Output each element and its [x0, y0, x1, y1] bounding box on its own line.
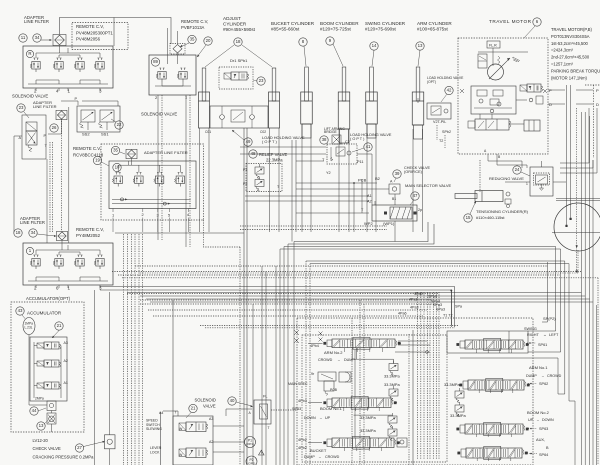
leader 23b	[253, 80, 257, 81]
svg-text:13: 13	[39, 423, 44, 428]
svg-text:23: 23	[259, 78, 264, 83]
tension small parts	[506, 192, 510, 196]
bucket cylinder	[305, 67, 309, 101]
solenoid valve SS2	[81, 110, 95, 122]
rcv pvbf box	[149, 55, 196, 95]
balloon 22	[115, 121, 123, 129]
svg-text:CROWD: CROWD	[318, 358, 333, 362]
rcv2 pilot valve 4	[178, 172, 180, 174]
solenoid valve SV1	[26, 122, 37, 131]
rcv2 dashed box	[101, 144, 204, 220]
svg-text:1st-53,2cm³×45,500: 1st-53,2cm³×45,500	[551, 41, 589, 46]
svg-text:44: 44	[32, 408, 37, 413]
svg-text:=1257,1cm³: =1257,1cm³	[551, 62, 574, 67]
svg-text:PV48M2056: PV48M2056	[76, 37, 101, 42]
FL filter box	[254, 400, 271, 424]
tm inner stubs	[491, 114, 493, 119]
rcv2 port wires down	[112, 218, 114, 233]
svg-text:33.3MPa: 33.3MPa	[384, 382, 400, 387]
spool BOOM No.1	[332, 398, 391, 408]
adjust sol valve dashed box	[219, 67, 253, 89]
remote control valve R block	[23, 46, 113, 88]
line filter F5	[170, 44, 185, 55]
svg-text:A2: A2	[209, 440, 213, 444]
leader 21	[52, 331, 59, 339]
svg-text:POB: POB	[330, 388, 338, 392]
svg-text:23: 23	[19, 105, 24, 110]
svg-text:(OP1): (OP1)	[246, 442, 254, 446]
leader 14	[372, 50, 374, 66]
svg-text:LINE FILTER: LINE FILTER	[33, 104, 57, 109]
relief 33.3 e	[455, 391, 464, 398]
svg-text:24: 24	[515, 167, 520, 172]
leader from balloons to filter	[41, 39, 51, 41]
svg-text:13: 13	[418, 43, 423, 48]
warning triangle	[259, 450, 265, 455]
svg-text:PY48M2052: PY48M2052	[76, 233, 101, 238]
svg-text:4Pa2: 4Pa2	[409, 298, 418, 302]
svg-text:C01: C01	[205, 130, 211, 134]
spool BOOM No.2	[465, 424, 523, 434]
svg-text:T: T	[268, 426, 270, 430]
svg-text:C02: C02	[260, 130, 266, 134]
svg-text:LINE FILTER: LINE FILTER	[20, 220, 45, 225]
svg-text:42: 42	[447, 88, 452, 93]
relief 33.3 f	[455, 405, 464, 412]
svg-text:ARM CYLINDER: ARM CYLINDER	[417, 21, 452, 26]
svg-text:22.3MPa: 22.3MPa	[266, 158, 283, 163]
svg-text:BRIDGE: BRIDGE	[324, 130, 338, 134]
svg-text:SP63: SP63	[539, 427, 548, 431]
svg-text:33.3MPa: 33.3MPa	[360, 428, 376, 433]
svg-text:15: 15	[466, 215, 471, 220]
svg-text:DUMP: DUMP	[344, 358, 355, 362]
svg-text:(OPT): (OPT)	[427, 80, 436, 84]
svg-text:T2: T2	[439, 139, 443, 143]
tm motor circle	[488, 64, 504, 80]
accu sol valve A1	[44, 382, 59, 389]
svg-text:SP61: SP61	[538, 343, 547, 347]
svg-text:R: R	[28, 51, 31, 56]
svg-text:#110×460-115st: #110×460-115st	[476, 215, 505, 220]
svg-text:#120×75-725st: #120×75-725st	[320, 27, 352, 32]
svg-text:4Pb4: 4Pb4	[310, 344, 319, 348]
svg-text:↔: ↔	[319, 416, 323, 420]
lh check 2	[250, 115, 255, 120]
left long verticals	[93, 290, 95, 465]
svg-text:Y2: Y2	[326, 171, 331, 175]
solenoid valve SS1	[100, 110, 114, 122]
main valve inner dashed box	[302, 335, 447, 462]
svg-text:↔: ↔	[541, 374, 545, 378]
relief 33.3 d	[388, 429, 397, 436]
balloon 18c	[234, 38, 242, 46]
wire filter to top rail	[60, 18, 172, 45]
bottom sol valve 1	[186, 422, 206, 432]
svg-text:(ORIFICE): (ORIFICE)	[404, 170, 423, 174]
svg-text:REMOTE C.V,: REMOTE C.V,	[76, 227, 104, 232]
leader 44	[38, 408, 46, 411]
line filter F4	[57, 231, 68, 240]
lh check 1	[220, 115, 225, 120]
svg-text:34: 34	[31, 230, 36, 235]
balloon 23	[17, 104, 25, 112]
balloon 35b	[111, 146, 119, 154]
svg-text:27: 27	[77, 445, 82, 450]
balloon 23b	[257, 77, 265, 85]
svg-text:40: 40	[230, 398, 235, 403]
svg-text:PARKING BREAK TORQUE: PARKING BREAK TORQUE	[551, 68, 600, 73]
svg-text:35: 35	[190, 37, 195, 42]
vert valve	[324, 381, 334, 391]
svg-text:AUX,: AUX,	[536, 437, 545, 442]
spool SWING	[465, 340, 523, 349]
svg-text:TRAVEL MOTOR: TRAVEL MOTOR	[489, 19, 532, 24]
leader 40	[236, 402, 252, 406]
leader 41	[352, 148, 364, 152]
svg-text:DUMP: DUMP	[304, 455, 315, 459]
wire filter drop into block	[59, 46, 61, 53]
relief 33.3 c	[388, 416, 397, 423]
accu wires	[33, 342, 35, 398]
svg-text:↔: ↔	[543, 333, 547, 337]
svg-text:BOOM CYLINDER: BOOM CYLINDER	[320, 21, 359, 26]
svg-text:RIGHT: RIGHT	[527, 333, 539, 337]
svg-text:ARM No.1: ARM No.1	[529, 365, 548, 370]
svg-text:#90×455×590st: #90×455×590st	[223, 27, 256, 32]
svg-text:LEFT: LEFT	[549, 333, 559, 337]
X marks arm2	[294, 330, 299, 335]
boom lh internals	[336, 147, 345, 156]
balloon 40	[228, 397, 236, 405]
svg-text:P2: P2	[243, 182, 247, 186]
spool ARM No.1	[468, 380, 524, 390]
bottom wires	[213, 425, 244, 427]
svg-text:SPa3: SPa3	[436, 308, 445, 312]
svg-text:SWING CYLINDER: SWING CYLINDER	[365, 21, 406, 26]
svg-text:38: 38	[322, 137, 327, 142]
svg-text:REMOTE C.V,: REMOTE C.V,	[181, 19, 208, 24]
svg-text:20: 20	[206, 38, 211, 43]
balloon 8	[299, 38, 307, 46]
tm inner box	[471, 86, 516, 114]
line filter F2	[56, 110, 67, 119]
leader 49	[232, 130, 244, 140]
svg-text:CHECK VALVE: CHECK VALVE	[33, 446, 62, 451]
svg-text:TRAVEL MOTOR(P,B): TRAVEL MOTOR(P,B)	[551, 27, 592, 32]
comp valve	[339, 372, 351, 382]
svg-text:33.3MPa: 33.3MPa	[384, 374, 400, 379]
balloon 1	[26, 247, 33, 254]
svg-text:49: 49	[246, 139, 251, 144]
svg-text:A3: A3	[209, 417, 213, 421]
spool ARM No.2	[332, 339, 395, 348]
leader 18c legs	[205, 45, 234, 67]
balloon 26	[50, 124, 58, 132]
svg-text:P: P	[549, 88, 552, 93]
balloon 39	[393, 170, 401, 178]
relief 33.3 a	[389, 364, 398, 371]
reducing valve	[534, 173, 550, 185]
load holding assembly box	[210, 106, 268, 128]
svg-text:PCB: PCB	[358, 178, 367, 183]
spool interconnects colA	[351, 348, 353, 359]
balloon 20	[204, 37, 212, 45]
rcv3 block	[23, 243, 113, 285]
rcv2 inner box	[109, 161, 196, 209]
balloon 15	[464, 214, 472, 222]
svg-text:CRACKING PRESSURE 0.2MPa: CRACKING PRESSURE 0.2MPa	[33, 454, 95, 459]
port stubs rcv3	[35, 285, 37, 288]
svg-text:21: 21	[57, 323, 62, 328]
svg-text:P1: P1	[243, 168, 247, 172]
arm cylinder	[416, 67, 420, 101]
arm lh dashes	[436, 125, 438, 140]
svg-text:DOWN: DOWN	[304, 416, 316, 420]
spool port ticks	[344, 348, 346, 352]
svg-text:POT013NVS304S5A: POT013NVS304S5A	[551, 34, 590, 39]
solenoid valve SV1 outer box	[22, 115, 46, 159]
accu inner box	[30, 337, 67, 401]
svg-text:REDUCING VALVE: REDUCING VALVE	[489, 176, 524, 181]
svg-text:14: 14	[372, 43, 377, 48]
tm inner details	[477, 90, 487, 96]
wire P to SS box	[61, 101, 78, 105]
boom lh valve box	[327, 144, 357, 164]
leader 39	[394, 178, 396, 182]
balloon 43	[16, 307, 24, 315]
balloon 6	[533, 18, 541, 26]
svg-text:2p: 2p	[418, 208, 422, 212]
pvbf pilot valve 1	[159, 67, 161, 69]
rcv2 port stubs	[112, 209, 114, 213]
lh inner detail	[231, 110, 245, 122]
svg-text:SPa3: SPa3	[433, 303, 442, 307]
relief 33.3 b	[389, 389, 398, 396]
svg-text:Dr1 SPb1: Dr1 SPb1	[230, 58, 248, 63]
svg-text:26: 26	[52, 125, 57, 130]
svg-text:P11: P11	[357, 160, 363, 164]
balloon 35	[188, 35, 196, 43]
balloon 14	[370, 42, 378, 50]
balloon 11	[19, 34, 27, 42]
svg-text:ADJUST: ADJUST	[223, 16, 241, 21]
tm check pair	[529, 98, 533, 102]
bucket extra valve	[397, 438, 407, 447]
tm top line	[478, 51, 528, 53]
svg-text:WP2: WP2	[364, 221, 373, 226]
wire filter3 drop	[131, 159, 133, 166]
svg-text:BUCKET CYLINDER: BUCKET CYLINDER	[271, 21, 315, 26]
main selector spool	[390, 207, 412, 219]
adjust sol valve	[231, 72, 247, 80]
tm lower right valve	[524, 120, 540, 131]
line filter F3	[126, 149, 137, 158]
svg-text:DUMP: DUMP	[526, 374, 537, 378]
svg-text:DOWN: DOWN	[542, 418, 554, 422]
svg-text:2MPa: 2MPa	[35, 397, 44, 401]
svg-text:19: 19	[95, 158, 100, 163]
travel motor dashed box	[458, 38, 548, 154]
leader 42	[441, 94, 447, 102]
balloon 13b	[416, 42, 424, 50]
balloon 27	[75, 444, 83, 452]
svg-text:SOLENOID: SOLENOID	[195, 398, 216, 403]
rcv2 pilot valve 2	[136, 172, 138, 174]
svg-text:3: 3	[157, 213, 159, 218]
leader 8	[304, 46, 306, 66]
wire into pvbf	[167, 28, 169, 64]
svg-text:↔: ↔	[337, 358, 341, 362]
boom cylinder	[342, 67, 346, 101]
svg-text:2nd-27,6cm³×45,500: 2nd-27,6cm³×45,500	[551, 55, 590, 60]
wire filter4 drop	[61, 241, 63, 250]
tm bottom ports	[487, 154, 489, 161]
main valve dashed box	[297, 318, 533, 465]
balloon 24	[513, 166, 521, 174]
leader 22	[111, 119, 116, 122]
svg-text:( O P T ): ( O P T )	[350, 137, 365, 141]
svg-text:#100×65-875st: #100×65-875st	[417, 27, 449, 32]
svg-text:A4: A4	[159, 411, 163, 415]
leader 27 to box	[84, 442, 105, 447]
leader 15	[470, 201, 476, 214]
svg-text:33.3MPa: 33.3MPa	[444, 382, 460, 387]
svg-text:ARM No.2: ARM No.2	[324, 350, 343, 355]
main valve inner solid edge	[412, 330, 414, 465]
svg-text:UP: UP	[325, 416, 331, 420]
relief rv1	[255, 167, 264, 174]
svg-text:SP63: SP63	[292, 407, 301, 411]
balloon 42	[445, 86, 453, 94]
svg-text:11: 11	[21, 35, 26, 40]
svg-text:41: 41	[366, 144, 371, 149]
leader 18b	[37, 234, 55, 236]
leader 19	[102, 162, 110, 166]
svg-text:22: 22	[117, 122, 122, 127]
svg-text:4Pb3: 4Pb3	[298, 399, 307, 403]
svg-text:CROWD: CROWD	[325, 455, 340, 459]
main selector box	[372, 205, 417, 221]
svg-text:A2: A2	[64, 359, 68, 363]
spool BUCKET	[332, 438, 394, 448]
svg-text:4Pa3: 4Pa3	[410, 306, 419, 310]
svg-text:CROWD: CROWD	[547, 374, 562, 378]
balloon 10	[113, 163, 121, 171]
leader 6	[524, 26, 535, 38]
accumulator dashed box	[11, 302, 84, 432]
accu sol valve A3	[44, 342, 59, 349]
svg-text:!: !	[261, 451, 262, 455]
svg-text:33.3MPa: 33.3MPa	[450, 413, 466, 418]
spool row extension lines	[398, 340, 427, 342]
svg-text:B1: B1	[392, 197, 396, 201]
svg-text:ACCUMULATOR(OPT): ACCUMULATOR(OPT)	[26, 296, 71, 301]
svg-text:BOOM No.2: BOOM No.2	[527, 410, 550, 415]
adjust cylinder left leg	[202, 68, 206, 101]
svg-text:SPa6: SPa6	[428, 295, 437, 299]
tm 2cell valve	[478, 54, 487, 68]
svg-text:21: 21	[191, 406, 196, 411]
wire SV1 ports	[14, 135, 22, 137]
check valve body	[105, 435, 116, 449]
svg-text:↔: ↔	[536, 418, 540, 422]
port stubs rcv1	[35, 88, 37, 91]
balloon 48	[249, 150, 257, 158]
leader 23 to valve	[24, 112, 29, 118]
svg-text:FL.R: FL.R	[489, 44, 497, 48]
svg-text:BOOM No.1: BOOM No.1	[320, 406, 343, 411]
swing cylinder	[370, 67, 374, 101]
svg-text:TENSIONING CYLINDER(R): TENSIONING CYLINDER(R)	[476, 209, 529, 214]
svg-text:T1 T2: T1 T2	[443, 314, 453, 318]
svg-text:ADAPTER LINE FILTER: ADAPTER LINE FILTER	[144, 150, 188, 155]
balloon 18b	[14, 229, 22, 237]
balloon P2 OP2	[246, 456, 257, 465]
rcv2 lower rails	[112, 198, 191, 200]
svg-text:BUCKET: BUCKET	[310, 448, 327, 453]
rcv2 manifold	[118, 165, 180, 172]
pump inner detail	[576, 245, 578, 248]
leader 24	[521, 172, 530, 176]
check opt box	[389, 184, 400, 194]
arm lh box	[427, 103, 451, 119]
svg-text:PVBF1013A: PVBF1013A	[181, 25, 205, 30]
svg-text:UP: UP	[528, 418, 534, 422]
leader 35b	[120, 152, 125, 154]
solenoid valve pair box	[77, 106, 120, 132]
tm spring sym	[498, 56, 501, 64]
rcv2 pilot valve 1	[116, 172, 118, 174]
svg-text:RELIEF VALVE: RELIEF VALVE	[259, 152, 288, 157]
svg-text:SLEWING: SLEWING	[146, 427, 162, 431]
svg-text:39: 39	[395, 171, 400, 176]
ls box	[318, 372, 336, 381]
leader 20	[197, 45, 206, 57]
balloon 34	[33, 34, 41, 42]
svg-text:FL: FL	[263, 395, 267, 399]
relief valve box	[246, 164, 282, 192]
pvbf pilot valve 2	[180, 67, 182, 69]
svg-text:1: 1	[526, 182, 528, 186]
svg-text:(WP1): (WP1)	[383, 221, 395, 226]
svg-text:CYLINDER: CYLINDER	[223, 22, 247, 27]
svg-text:4Pa6: 4Pa6	[398, 312, 407, 316]
svg-text:(OP2): (OP2)	[248, 462, 256, 465]
balloon 34b	[29, 229, 37, 237]
svg-text:SPa: SPa	[455, 305, 463, 309]
svg-text:LV12-20: LV12-20	[33, 438, 49, 443]
svg-text:SOLENOID VALVE: SOLENOID VALVE	[12, 94, 48, 99]
wire top rail drop	[113, 18, 115, 47]
leader 9	[333, 44, 343, 66]
rcv2 pilot valve 3	[157, 172, 159, 174]
svg-text:LOCK: LOCK	[150, 450, 160, 454]
wire accu down	[51, 411, 53, 414]
balloon 49	[244, 138, 252, 146]
balloon 38	[320, 136, 328, 144]
tm right valve	[527, 84, 541, 92]
svg-text:43: 43	[18, 308, 23, 313]
check X sym	[47, 413, 56, 424]
svg-text:SS2: SS2	[82, 132, 90, 137]
svg-text:LINE FILTER: LINE FILTER	[24, 19, 49, 24]
remote control valve label box	[72, 23, 128, 50]
svg-text:18: 18	[236, 39, 241, 44]
svg-text:89: 89	[153, 59, 158, 64]
svg-text:REMOTE C.V,: REMOTE C.V,	[73, 146, 101, 151]
svg-text:PV48M205300PT1: PV48M205300PT1	[76, 30, 113, 35]
